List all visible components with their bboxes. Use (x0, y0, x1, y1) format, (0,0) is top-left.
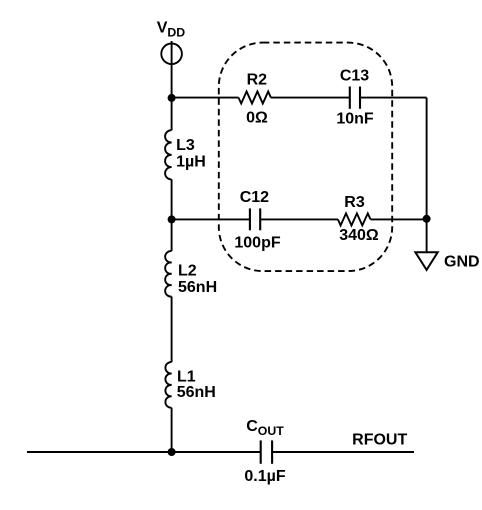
wire L2 to L1 (171, 297, 173, 363)
svg-text:0Ω: 0Ω (246, 109, 268, 126)
svg-text:100pF: 100pF (234, 235, 280, 252)
svg-text:10nF: 10nF (336, 111, 374, 128)
svg-text:C13: C13 (340, 67, 369, 84)
svg-text:GND: GND (444, 254, 480, 271)
svg-text:RFOUT: RFOUT (352, 432, 407, 449)
wire R3 to ground branch (371, 218, 427, 220)
svg-text:COUT: COUT (246, 418, 284, 438)
resistor R2 (239, 92, 271, 104)
node ground branch junction (423, 215, 431, 223)
wire output rail left to COUT (27, 451, 261, 453)
wire VDD stem down to L3 (171, 41, 173, 130)
inductor L2 (165, 251, 171, 296)
svg-text:C12: C12 (240, 189, 269, 206)
wire mid node to C12 (172, 218, 250, 220)
wire R2 to C13 (271, 97, 350, 99)
resistor R3 (338, 213, 371, 225)
svg-text:R2: R2 (247, 72, 268, 89)
svg-text:56nH: 56nH (177, 384, 216, 401)
power supply VDD symbol (161, 44, 182, 65)
inductor L3 (165, 130, 172, 179)
node L3-L2 mid junction (168, 215, 176, 223)
svg-text:L2: L2 (178, 262, 197, 279)
node output junction (168, 448, 176, 456)
ground symbol (415, 252, 437, 270)
wire L3 to L2 (171, 179, 173, 251)
inductor L1 (165, 362, 171, 408)
svg-text:56nH: 56nH (178, 279, 217, 296)
svg-text:1µH: 1µH (176, 153, 206, 170)
dashed boundary box (219, 43, 392, 272)
node VDD junction (168, 94, 176, 102)
capacitor COUT (261, 440, 272, 463)
wire L1 to output node (171, 408, 173, 452)
wire C12 to R3 (260, 218, 338, 220)
svg-text:L3: L3 (176, 137, 195, 154)
wire C13 to ground branch (360, 97, 427, 99)
svg-text:R3: R3 (344, 194, 365, 211)
wire COUT to RFOUT (272, 451, 414, 453)
wire VDD node to R2 (172, 97, 239, 99)
wire ground branch vertical (426, 98, 428, 253)
capacitor C13 (350, 87, 360, 109)
svg-text:0.1µF: 0.1µF (244, 468, 285, 485)
capacitor C12 (250, 208, 260, 230)
svg-text:VDD: VDD (157, 20, 186, 40)
svg-text:340Ω: 340Ω (339, 227, 379, 244)
svg-text:L1: L1 (177, 369, 196, 386)
